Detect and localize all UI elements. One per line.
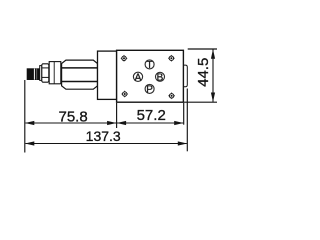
valve body hex (octagon side view): [62, 60, 98, 89]
extension line 44.5 bottom: [184, 101, 217, 103]
extension line tab-right (D): [186, 89, 188, 152]
port B: [156, 72, 165, 83]
extension line plate-left (B): [116, 103, 118, 128]
extension line left (A): [24, 80, 26, 153]
extension line plate-right (C): [183, 103, 185, 125]
port T: [145, 60, 154, 71]
adjustment screw threaded stub (black): [27, 68, 40, 80]
svg-text:75.8: 75.8: [58, 109, 87, 126]
port P: [145, 84, 154, 95]
dimension line 57.2: [117, 121, 184, 125]
svg-text:A: A: [135, 72, 142, 83]
dimension line 75.8: [25, 121, 117, 125]
locating tab on right edge of plate: [183, 65, 187, 87]
locknut (hex side view): [42, 64, 49, 82]
bolt hole top-right: [168, 55, 175, 62]
mounting flange plate (front view): [117, 50, 184, 102]
extension line 44.5 top: [188, 48, 217, 50]
svg-text:T: T: [147, 60, 153, 71]
bolt hole bottom-left: [121, 91, 128, 98]
svg-text:137.3: 137.3: [86, 128, 121, 144]
dimension line 137.3: [25, 141, 187, 145]
svg-text:P: P: [146, 85, 153, 96]
bolt hole top-left: [121, 55, 128, 62]
svg-text:57.2: 57.2: [137, 107, 166, 124]
spacer sleeve: [49, 62, 61, 84]
svg-text:B: B: [157, 72, 164, 83]
valve body block (side view): [98, 51, 117, 99]
bolt hole bottom-right: [168, 92, 175, 99]
dimension line 44.5 vertical: [211, 49, 215, 102]
washer: [40, 66, 42, 81]
svg-text:44.5: 44.5: [195, 58, 212, 87]
port A: [133, 72, 142, 83]
